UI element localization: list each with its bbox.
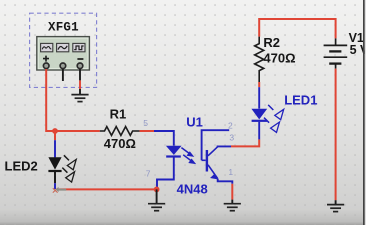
- LED2: [48, 157, 61, 171]
- wire LED1 cathode (blue part): [258, 122, 260, 140]
- resistor R2: [255, 37, 264, 82]
- U1 light arrow 2: [183, 155, 195, 164]
- wire ground node stub: [156, 189, 158, 203]
- XFG1 common terminal: [60, 63, 66, 69]
- svg-text:XFG1: XFG1: [48, 21, 79, 35]
- wire R2 to LED1 anode (red part): [258, 82, 260, 87]
- resistor R1: [100, 127, 140, 136]
- wire U1 collector (blue part): [218, 145, 231, 147]
- svg-text:470Ω: 470Ω: [104, 136, 136, 151]
- wire LED2 cathode (black part): [54, 172, 56, 183]
- wire U1 emitter (blue part): [218, 179, 233, 184]
- wire node to LED2 anode (red part): [54, 131, 56, 140]
- ground (XFG1 minus): [71, 95, 88, 102]
- XFG1 triangle button: [57, 43, 69, 51]
- ground (V1 negative): [327, 205, 344, 212]
- svg-text:R2: R2: [263, 35, 280, 50]
- screen right edge line: [363, 0, 365, 225]
- wire XFG1 plus to R1: [46, 69, 100, 131]
- wire V1 ground stub: [335, 200, 337, 204]
- ground (LED2 / U1 cathode): [148, 204, 165, 211]
- connection cross at LED2 cathode: [53, 188, 58, 192]
- svg-text:U1: U1: [186, 114, 203, 129]
- svg-text:4N48: 4N48: [177, 181, 208, 196]
- junction node at LED2 branch: [52, 128, 58, 134]
- wire R1 to U1 anode (red part): [140, 130, 154, 132]
- wire top rail R2 to V1: [259, 19, 335, 38]
- U1 phototransistor: [202, 147, 218, 179]
- XFG1 plus mark: [43, 56, 49, 62]
- U1 light arrow 1: [181, 148, 193, 157]
- wire XFG1 minus to ground: [79, 69, 81, 94]
- XFG1 sine button: [41, 43, 53, 51]
- LED2 emission arrow 1: [64, 155, 76, 170]
- U1 LED: [166, 146, 182, 157]
- wire node to LED2 anode (blue part): [54, 140, 56, 157]
- svg-text:R1: R1: [110, 107, 127, 122]
- wire LED2 cathode (blue part): [54, 183, 56, 189]
- XFG1 square button: [73, 43, 85, 51]
- wire U1 emitter ground stub: [231, 200, 233, 204]
- battery V1: [324, 38, 348, 68]
- wire U1 emitter to ground (red part): [231, 184, 233, 200]
- svg-text:7: 7: [146, 168, 151, 178]
- wire R1 to U1 anode (blue part): [154, 131, 174, 146]
- ground (U1 emitter): [224, 204, 241, 211]
- instrument XFG1 body: [37, 37, 90, 70]
- svg-text:2: 2: [228, 120, 233, 130]
- wire XFG1 common stub: [62, 69, 64, 81]
- svg-text:470Ω: 470Ω: [263, 50, 295, 65]
- svg-text:LED1: LED1: [284, 92, 317, 107]
- wire U1 base stub pin 2: [202, 130, 230, 160]
- svg-text:1: 1: [228, 167, 233, 177]
- junction node at U1 cathode ground: [154, 187, 160, 193]
- wire U1 cathode to ground node: [157, 158, 174, 188]
- wire U1 collector to LED1 (red part): [231, 139, 259, 146]
- LED1: [251, 109, 267, 121]
- LED1 emission arrow 2: [264, 118, 280, 133]
- svg-text:5: 5: [143, 118, 148, 128]
- XFG1 plus terminal: [43, 63, 49, 69]
- mouse cursor: [56, 187, 67, 192]
- wire LED2 cathode to ground node: [57, 188, 156, 190]
- XFG1 minus mark: [77, 58, 83, 60]
- svg-text:3: 3: [229, 132, 234, 142]
- wire R2 to LED1 anode (blue part): [258, 87, 260, 108]
- XFG1 minus terminal: [77, 63, 83, 69]
- XFG1 selection box: [30, 13, 97, 87]
- wire V1 to ground: [335, 69, 337, 201]
- LED1 emission arrow 1: [268, 105, 284, 120]
- LED2 emission arrow 2: [62, 168, 74, 183]
- svg-text:LED2: LED2: [5, 159, 38, 174]
